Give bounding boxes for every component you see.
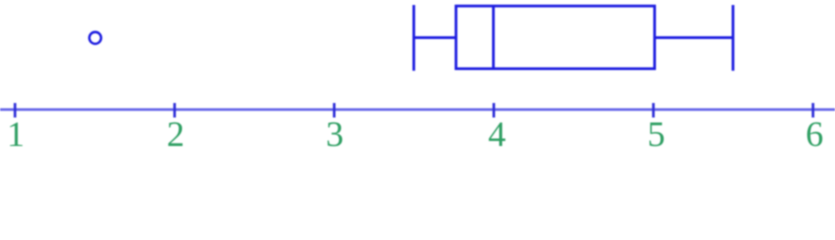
svg-text:2: 2 [167,114,185,154]
svg-text:5: 5 [647,114,665,154]
svg-text:3: 3 [326,114,344,154]
svg-text:6: 6 [806,114,824,154]
svg-text:1: 1 [7,114,25,154]
svg-text:4: 4 [488,114,506,154]
